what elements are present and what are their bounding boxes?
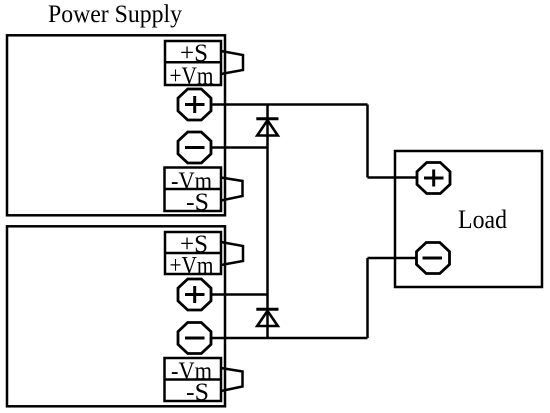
diode D1 triangle bbox=[257, 120, 278, 135]
diode D1 cathode bar bbox=[256, 117, 278, 120]
wire PS1 + to corner bbox=[211, 103, 368, 106]
Load box bbox=[395, 151, 542, 287]
terminal - (Load) bbox=[417, 243, 450, 274]
svg-text:Power Supply: Power Supply bbox=[48, 1, 182, 28]
connector tab upper sense clip (PS2) bbox=[221, 242, 243, 265]
wire corner up to Load - level bbox=[366, 258, 369, 338]
svg-text:+Vm: +Vm bbox=[170, 63, 214, 90]
svg-text:-S: -S bbox=[186, 379, 209, 406]
terminal block +S/+Vm (PS1) bbox=[165, 41, 221, 85]
power supply PS2 box bbox=[7, 226, 225, 406]
terminal block +S/+Vm (PS2) bbox=[165, 232, 221, 274]
terminal block -Vm/-S (PS2) bbox=[165, 358, 222, 401]
connector tab lower sense clip (PS1) bbox=[221, 178, 243, 201]
diode D2 triangle bbox=[257, 311, 278, 326]
wire to Load + terminal bbox=[368, 176, 419, 179]
connector tab lower sense clip (PS2) bbox=[221, 368, 243, 391]
terminal block -Vm/-S (PS1) bbox=[165, 168, 222, 212]
diode D2 cathode bar bbox=[256, 308, 278, 311]
wire PS1 - to diode branch bbox=[211, 146, 268, 149]
wire diode branch vertical bbox=[266, 105, 269, 339]
terminal + (PS1) bbox=[178, 89, 211, 120]
svg-text:+Vm: +Vm bbox=[170, 253, 214, 280]
terminal + (Load) bbox=[417, 163, 450, 194]
connector tab upper sense clip (PS1) bbox=[221, 51, 243, 74]
svg-text:-S: -S bbox=[186, 189, 209, 216]
terminal - (PS2) bbox=[178, 323, 211, 354]
svg-text:Load: Load bbox=[458, 205, 507, 234]
wire corner down to Load + level bbox=[366, 105, 369, 178]
power supply PS1 box bbox=[7, 35, 225, 215]
terminal - (PS1) bbox=[178, 132, 211, 163]
wire PS2 + to diode branch bbox=[211, 293, 268, 296]
terminal + (PS2) bbox=[178, 279, 211, 310]
wire to Load - terminal bbox=[368, 257, 418, 260]
wire PS2 - to corner bbox=[211, 337, 368, 340]
